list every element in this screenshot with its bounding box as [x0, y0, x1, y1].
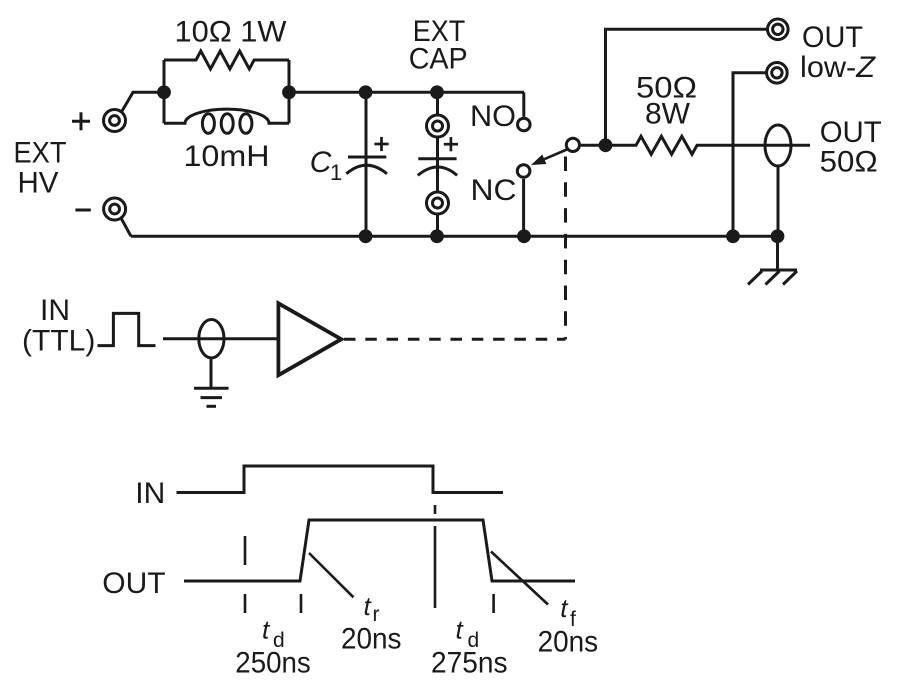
connector OUT 50Ω [765, 125, 791, 166]
waveform IN [177, 466, 504, 493]
waveform OUT [184, 520, 575, 581]
node B [599, 138, 613, 152]
svg-text:IN: IN [40, 294, 70, 327]
node A2 [282, 85, 296, 99]
timing diagram [177, 466, 576, 581]
pulse symbol IN TTL [98, 313, 156, 345]
tick td start above [244, 536, 247, 565]
switch NO contact [518, 118, 531, 131]
tick in fall dash [434, 505, 437, 514]
svg-text:HV: HV [18, 167, 59, 200]
node A [157, 85, 171, 99]
ground chassis [748, 236, 797, 284]
wire loop left side [163, 60, 166, 123]
capacitor EXT CAP branch [418, 92, 457, 236]
wire NC to bottom rail [522, 179, 525, 237]
svg-text:IN: IN [135, 477, 165, 510]
resistor 10Ω 1W [164, 51, 289, 69]
terminal EXT HV - [104, 198, 126, 220]
node EXT CAP top [430, 85, 444, 99]
label tr 20ns [341, 591, 402, 656]
tick out rise [300, 594, 303, 613]
tick out fall [492, 594, 495, 613]
tick in fall long [434, 526, 437, 608]
svg-text:50Ω: 50Ω [820, 146, 878, 179]
svg-text:(TTL): (TTL) [22, 325, 95, 358]
switch actuator arrow [544, 150, 567, 160]
node C1 bottom [359, 229, 373, 243]
svg-text:OUT: OUT [802, 21, 863, 54]
svg-text:C: C [310, 146, 332, 179]
capacitor C1 [346, 92, 387, 236]
svg-text:250ns: 250ns [235, 647, 310, 680]
label + EXT CAP [444, 137, 458, 151]
label IN TTL [22, 294, 95, 358]
wire bottom rail [131, 235, 778, 238]
resistor 50Ω 8W [606, 136, 811, 154]
buffer amplifier U1 [278, 303, 341, 375]
wire input to buffer [163, 337, 278, 340]
svg-text:275ns: 275ns [431, 647, 508, 680]
wire NO branch [522, 92, 525, 117]
wire node B up to OUT terminal [606, 29, 768, 145]
label - [75, 209, 90, 212]
terminal EXT HV + [104, 110, 126, 132]
wire loop right side [288, 60, 291, 123]
label td 250ns [235, 615, 310, 680]
ground signal [194, 358, 229, 406]
svg-text:8W: 8W [645, 98, 691, 131]
switch NC contact [517, 165, 530, 178]
svg-text:low-Z: low-Z [800, 51, 877, 84]
wire from + terminal to node A [122, 92, 164, 111]
label EXT CAP [409, 15, 468, 76]
label + C1 [374, 137, 388, 151]
node ground [771, 229, 785, 243]
switch pole contact [566, 138, 579, 151]
svg-text:OUT: OUT [820, 116, 882, 149]
wire low-Z terminal to bottom rail [733, 73, 767, 237]
svg-text:NC: NC [471, 174, 517, 207]
inductor 10mH [164, 109, 289, 133]
wire pole to node B [581, 144, 606, 147]
svg-text:20ns: 20ns [538, 626, 599, 659]
svg-text:10mH: 10mH [184, 140, 270, 173]
node C1 top [359, 85, 373, 99]
svg-text:20ns: 20ns [341, 623, 402, 656]
switch arrowhead [531, 155, 546, 166]
svg-text:10Ω 1W: 10Ω 1W [175, 16, 288, 49]
label tf 20ns [538, 593, 599, 659]
node EXT CAP bottom [430, 229, 444, 243]
node NC bottom [517, 229, 531, 243]
callout line tf [491, 552, 548, 605]
dashed link switch to buffer [344, 157, 566, 340]
label td 275ns [431, 615, 508, 680]
wire ellipse to bottom rail [777, 166, 780, 236]
svg-text:CAP: CAP [409, 43, 468, 76]
label C1 [310, 146, 343, 185]
wire top rail [289, 91, 524, 94]
label EXT HV [14, 137, 67, 200]
wire from - terminal to bottom rail [121, 218, 131, 236]
svg-text:OUT: OUT [102, 567, 165, 600]
tick td start below [244, 594, 247, 613]
terminal OUT [768, 19, 789, 40]
svg-text:1: 1 [330, 160, 342, 185]
svg-text:EXT: EXT [14, 137, 67, 170]
label + [72, 112, 90, 130]
terminal OUT low-Z [767, 63, 788, 84]
callout line tr [309, 553, 354, 597]
connector input ellipse [199, 320, 224, 358]
node low-Z bottom [726, 229, 740, 243]
svg-text:NO: NO [470, 100, 516, 133]
